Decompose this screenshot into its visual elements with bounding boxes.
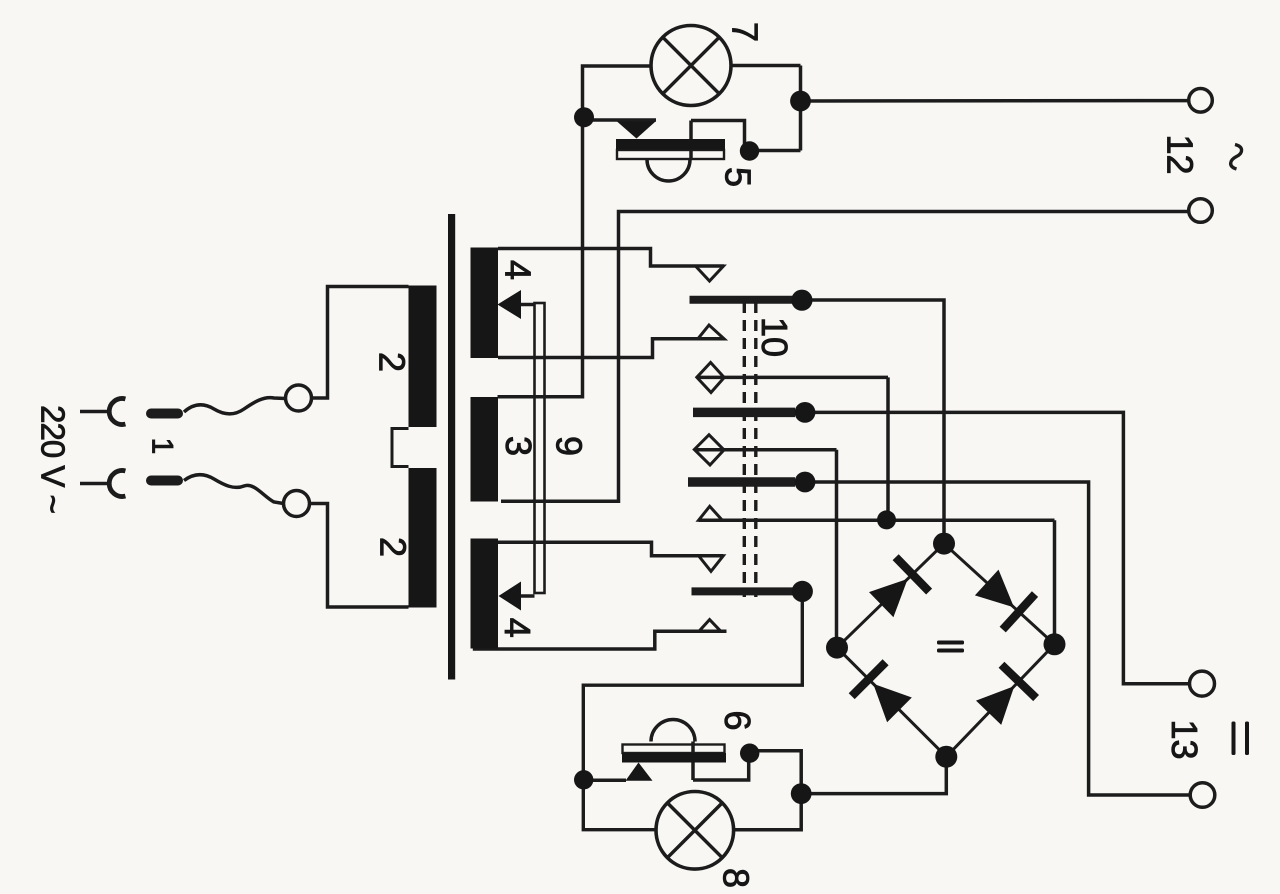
svg-text:3: 3 (498, 436, 539, 456)
svg-text:9: 9 (549, 436, 590, 456)
svg-text:6: 6 (717, 710, 758, 730)
svg-text:2: 2 (372, 352, 413, 372)
svg-text:220 V ~: 220 V ~ (35, 405, 72, 513)
svg-text:2: 2 (373, 537, 414, 557)
svg-text:13: 13 (1164, 719, 1205, 759)
svg-text:4: 4 (497, 618, 538, 638)
svg-text:1: 1 (146, 438, 179, 455)
svg-text:4: 4 (498, 260, 539, 280)
svg-text:5: 5 (718, 167, 759, 187)
svg-text:10: 10 (754, 317, 795, 357)
svg-text:8: 8 (716, 868, 757, 888)
svg-text:7: 7 (725, 22, 766, 42)
svg-text:12: 12 (1160, 134, 1201, 174)
